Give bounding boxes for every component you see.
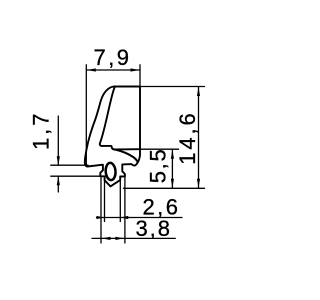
svg-text:3,8: 3,8 <box>135 216 170 241</box>
svg-text:5,5: 5,5 <box>145 149 170 183</box>
svg-text:1,7: 1,7 <box>29 114 54 151</box>
svg-text:14,6: 14,6 <box>175 113 200 165</box>
svg-text:7,9: 7,9 <box>94 45 130 70</box>
